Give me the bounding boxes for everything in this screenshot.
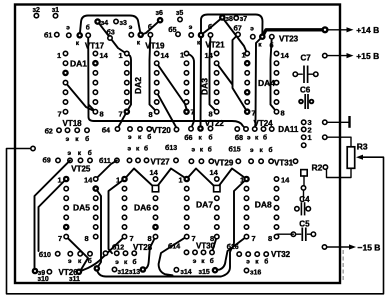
- DA7 pin 2 pad: [185, 186, 189, 190]
- node b10 pad: [56, 252, 60, 256]
- DA11 pin1 external pad: [323, 135, 327, 139]
- DA8 pin 2 pad: [244, 186, 248, 190]
- scan artifact line: [342, 250, 344, 282]
- svg-text:б: б: [85, 135, 89, 143]
- node z3 pad: [114, 19, 118, 23]
- node z15 big pad: [212, 267, 219, 274]
- svg-text:б: б: [263, 134, 267, 142]
- DA11 pin3 external pad: [323, 120, 327, 124]
- DA7 pin 8 pad: [215, 234, 219, 238]
- svg-text:14: 14: [210, 168, 219, 177]
- svg-text:з5: з5: [176, 10, 183, 17]
- transistor VT17: [67, 33, 71, 37]
- svg-text:б6: б6: [184, 134, 192, 142]
- svg-text:+15 В: +15 В: [356, 51, 379, 61]
- svg-text:R3: R3: [357, 142, 368, 152]
- DA5 pin 2 pad: [64, 186, 68, 190]
- svg-text:14: 14: [161, 51, 170, 60]
- DA5 pin 6 pad: [63, 224, 70, 231]
- wire VT21 arch over z8/z7 to VT23 k: [201, 15, 263, 37]
- wire DA5 col down to z12 pad: [96, 189, 101, 269]
- wire square pad to via: [303, 176, 305, 186]
- DA4 pin 7 pad: [244, 108, 251, 115]
- DA8 pin 7 pad: [244, 234, 248, 238]
- R2 pad: [323, 165, 327, 169]
- node b5 pad: [176, 32, 180, 36]
- node z4 pad: [94, 18, 101, 25]
- node z8 pad: [219, 14, 226, 21]
- DA7 pin 7 pad: [185, 234, 189, 238]
- svg-text:б15: б15: [229, 146, 241, 154]
- DA5 pin 5 pad: [64, 215, 68, 219]
- svg-text:б2: б2: [45, 128, 53, 136]
- svg-text:б10: б10: [39, 251, 51, 259]
- svg-text:з14: з14: [180, 269, 191, 276]
- DA7 pin 4 pad: [185, 206, 189, 210]
- svg-text:э: э: [189, 24, 193, 31]
- svg-text:C7: C7: [301, 54, 312, 63]
- svg-text:б: б: [133, 258, 137, 266]
- DA5 pin 4 pad: [64, 206, 68, 210]
- DA2 pin 2 pad: [125, 61, 129, 65]
- DA4 pin 10 pad: [274, 90, 278, 94]
- PCB board outline: [15, 5, 340, 284]
- wire DA2 pin13 diag to DA3 pin7: [157, 63, 187, 109]
- node z9 pad: [32, 268, 39, 275]
- svg-text:DA2: DA2: [133, 77, 143, 94]
- DA2 pin 13 pad: [155, 61, 159, 65]
- wire VT23 b down to DA4 pin8: [271, 37, 277, 112]
- DA4 pin 8 pad: [274, 110, 278, 114]
- DA3 pin 9 pad: [214, 100, 218, 104]
- svg-text:б: б: [269, 146, 273, 154]
- svg-text:э: э: [247, 135, 251, 142]
- wire DA6 pin1 down to VT28 e: [109, 179, 125, 253]
- svg-text:1: 1: [180, 51, 184, 60]
- svg-text:VT23: VT23: [279, 34, 299, 43]
- DA6 pin 4 pad: [122, 206, 126, 210]
- svg-text:14: 14: [205, 51, 214, 60]
- node b1 pad: [55, 32, 59, 36]
- svg-text:8: 8: [281, 109, 285, 118]
- transistor VT29 pads: [189, 159, 193, 163]
- wire R3 bottom to R2 pad: [327, 168, 352, 177]
- svg-text:б1: б1: [44, 31, 52, 39]
- pad right of VT20: [174, 127, 178, 131]
- svg-text:VT32: VT32: [271, 250, 291, 259]
- wire DA5 pin7 to VT26 pad: [66, 237, 88, 271]
- svg-text:э: э: [66, 24, 70, 31]
- DA4 pin 3 pad: [245, 71, 249, 75]
- transistor VT27 pads: [127, 158, 131, 162]
- DA8 pin 5 pad: [244, 215, 248, 219]
- DA8 pin 13 pad: [274, 186, 278, 190]
- DA4 pin 2 pad: [244, 60, 251, 67]
- svg-text:б4: б4: [102, 127, 110, 135]
- svg-text:б: б: [270, 42, 274, 50]
- wire C5 to DA8 pin8: [277, 234, 294, 236]
- DA6 pin 7 pad: [122, 234, 126, 238]
- DA1 pin 4 pad: [63, 80, 67, 84]
- DA6 square pad pin13: [152, 185, 158, 191]
- svg-text:б: б: [148, 23, 152, 31]
- DA11 pin1 pad: [302, 135, 306, 139]
- DA3 pin 4 pad: [184, 80, 188, 84]
- DA6 pin 1 pad: [121, 176, 128, 183]
- svg-text:VT21: VT21: [205, 40, 225, 49]
- DA6 pin9 pad: [152, 224, 159, 231]
- svg-text:э: э: [129, 24, 133, 31]
- svg-text:14: 14: [84, 176, 93, 185]
- node z2 pad: [34, 13, 38, 17]
- wire -15V out: [327, 246, 350, 248]
- svg-text:э: э: [128, 146, 132, 153]
- +15V pad: [323, 53, 327, 57]
- DA5 pin 9 pad: [94, 225, 98, 229]
- svg-text:8: 8: [149, 110, 153, 119]
- node b2 pad: [57, 128, 61, 132]
- DA11 pin4 pad: [302, 143, 306, 147]
- wire VT17 b down to bus: [88, 36, 94, 121]
- svg-text:1: 1: [119, 51, 123, 60]
- DA3 pin 1 pad: [184, 51, 188, 55]
- svg-text:б8: б8: [235, 134, 243, 142]
- DA6 pin 2 pad: [122, 186, 126, 190]
- svg-text:8: 8: [268, 234, 272, 243]
- DA1 pin 1 pad: [63, 51, 67, 55]
- wire VT19 b down to DA2 pin8: [150, 35, 157, 112]
- svg-text:DA1: DA1: [70, 59, 87, 69]
- node z13 pad: [140, 266, 147, 273]
- DA1 pin 2 pad: [63, 61, 67, 65]
- DA2 pin 4 pad: [125, 80, 129, 84]
- wire external loop from left pad around board to R3 wiper: [7, 149, 384, 294]
- DA5 pin 13 pad: [92, 185, 99, 192]
- DA3 pin 3 pad: [184, 71, 188, 75]
- svg-text:7: 7: [191, 108, 195, 117]
- svg-text:7: 7: [58, 110, 62, 119]
- DA1 pin 8 pad: [93, 110, 97, 114]
- DA1 pin 5 pad: [63, 90, 67, 94]
- svg-text:DA8: DA8: [255, 200, 272, 210]
- VT26 k pad: [76, 269, 83, 276]
- wire DA3 pin13 diag joining: [217, 63, 232, 84]
- pad right of VT29: [236, 159, 240, 163]
- svg-text:1: 1: [308, 133, 312, 142]
- node z12 big pad: [94, 265, 101, 272]
- svg-text:VT25: VT25: [71, 165, 91, 174]
- DA7 pin 14 pad: [215, 177, 219, 181]
- DA7 pin 11 pad: [215, 206, 219, 210]
- pad right of VT31: [293, 159, 297, 163]
- wire b7 pad down to DA4 pin7: [233, 35, 248, 112]
- wire +14V out: [329, 29, 348, 31]
- DA3 pin 5 pad: [184, 90, 188, 94]
- svg-text:14: 14: [150, 168, 159, 177]
- DA8 pin 12 pad: [274, 196, 278, 200]
- DA5 pin 10 pad: [94, 215, 98, 219]
- DA6 pin 11 pad: [153, 206, 157, 210]
- node b14 pad: [184, 250, 188, 254]
- svg-text:б: б: [86, 23, 90, 31]
- wire DA2 col diag down to VT20 side pad: [157, 92, 176, 127]
- DA4 pin 9 pad: [274, 100, 278, 104]
- DA1 pin 7 pad: [63, 110, 67, 114]
- svg-text:б16: б16: [227, 243, 239, 251]
- svg-text:э: э: [115, 259, 119, 266]
- wire DA8 pin7 to z15 pad: [215, 237, 247, 271]
- svg-text:б11: б11: [99, 157, 111, 165]
- svg-text:з16: з16: [250, 269, 261, 276]
- DA3 pin 7 pad: [183, 108, 190, 115]
- DA6 pin 10 pad: [153, 215, 157, 219]
- svg-text:DA4: DA4: [258, 78, 275, 88]
- svg-text:б7: б7: [234, 25, 242, 33]
- DA3 pin 11 pad: [214, 80, 218, 84]
- svg-text:б14: б14: [168, 243, 180, 251]
- DA1 pin 6 pad: [63, 100, 67, 104]
- svg-text:R2: R2: [312, 163, 323, 173]
- DA1 pin 12 pad: [93, 71, 97, 75]
- svg-text:1: 1: [242, 51, 246, 60]
- svg-text:14: 14: [281, 176, 290, 185]
- svg-text:8: 8: [209, 110, 213, 119]
- DA8 pin 1 pad: [243, 176, 250, 183]
- svg-text:б: б: [209, 133, 213, 141]
- DA2 pin 7 pad: [124, 108, 131, 115]
- DA7 pin 1 pad: [183, 176, 190, 183]
- svg-text:14: 14: [281, 51, 290, 60]
- DA1 pin 13 pad: [92, 60, 99, 67]
- wire VT23 k down to VT24 k: [255, 37, 263, 129]
- svg-text:з15: з15: [199, 269, 210, 276]
- DA3 pin 6 pad: [184, 100, 188, 104]
- DA8 pin 14 pad: [274, 177, 278, 181]
- svg-text:1: 1: [57, 51, 61, 60]
- DA5 pin 7 pad: [64, 234, 68, 238]
- svg-text:э: э: [193, 258, 197, 265]
- DA5 pin 3 pad: [64, 196, 68, 200]
- svg-text:DA7: DA7: [196, 200, 213, 210]
- DA6 pin 14 pad: [153, 177, 157, 181]
- DA6 pin 12 pad: [153, 196, 157, 200]
- wire DA5 pin1 to b10 pad: [39, 179, 67, 251]
- wire VT17 k arch over z4 to VT19 k: [80, 16, 141, 36]
- node z7 pad: [234, 16, 238, 20]
- DA5 pin 11 pad: [94, 206, 98, 210]
- svg-text:б: б: [210, 257, 214, 265]
- pad right of VT27: [174, 158, 178, 162]
- transistor VT25 pads: [68, 158, 72, 162]
- wire DA2 pin7 to b4 pad: [118, 112, 127, 129]
- wire zigzag DA7 to DA8: [187, 169, 247, 189]
- DA8 pin 6 pad: [244, 225, 248, 229]
- DA2 pin 12 pad: [155, 71, 159, 75]
- DA6 pin 3 pad: [122, 196, 126, 200]
- DA1 pin 3 pad: [62, 70, 69, 77]
- DA7 pin 6 pad: [185, 225, 189, 229]
- DA4 pin 14 pad: [274, 51, 278, 55]
- node left entry pad: [31, 146, 35, 150]
- svg-text:8: 8: [85, 234, 89, 243]
- svg-text:э: э: [246, 259, 250, 266]
- svg-text:з13: з13: [129, 269, 140, 276]
- node z6 pad: [157, 17, 164, 24]
- svg-text:з3: з3: [120, 20, 127, 27]
- DA1 pin 9 pad: [93, 100, 97, 104]
- node b7 pad: [236, 32, 240, 36]
- node z16 pad: [244, 268, 248, 272]
- svg-text:VT17: VT17: [85, 42, 105, 51]
- node z14 pad: [174, 268, 178, 272]
- svg-text:б: б: [88, 257, 92, 265]
- wire DA2 pin1 hairpin to pin7: [127, 54, 131, 112]
- DA11 pin2 pad: [302, 127, 306, 131]
- svg-text:DA5: DA5: [73, 203, 90, 213]
- DA6 pin 5 pad: [122, 215, 126, 219]
- DA7 pin 3 pad: [185, 196, 189, 200]
- DA4 pin 13 pad: [274, 61, 278, 65]
- DA8 pin 4 pad: [244, 206, 248, 210]
- svg-text:з10: з10: [38, 276, 49, 283]
- DA3 pin 14 pad: [214, 51, 218, 55]
- svg-text:1: 1: [58, 176, 62, 185]
- via above C4: [301, 186, 305, 190]
- svg-text:VT20: VT20: [152, 126, 172, 135]
- DA2 pin 8 pad: [155, 110, 159, 114]
- node b16 pad: [237, 252, 241, 256]
- svg-text:б: б: [144, 145, 148, 153]
- DA5 pin 12 pad: [94, 196, 98, 200]
- DA7 pin 10 pad: [215, 215, 219, 219]
- wire z4 diag to DA2 pin1: [98, 22, 127, 54]
- svg-text:7: 7: [58, 234, 62, 243]
- DA11 pin3 pad: [302, 120, 306, 124]
- arrowhead into R3 wiper: [356, 155, 363, 160]
- wire thick +14V feed from VT23 k: [262, 30, 325, 37]
- DA4 pin 5 pad: [244, 89, 251, 96]
- svg-text:э: э: [66, 136, 70, 143]
- DA7 square pad pin13: [214, 185, 220, 191]
- node z5 pad: [178, 17, 182, 21]
- svg-text:VT29: VT29: [214, 159, 234, 168]
- pad right of VT24: [270, 127, 274, 131]
- svg-text:VT22: VT22: [205, 119, 225, 128]
- DA2 pin 10 pad: [155, 90, 159, 94]
- svg-text:б: б: [208, 146, 212, 154]
- DA4 pin 11 pad: [274, 80, 278, 84]
- svg-text:7: 7: [252, 109, 256, 118]
- svg-text:1: 1: [116, 176, 120, 185]
- wire DA1 pin3 diag to pin8: [66, 83, 96, 112]
- wire DA7 pin7 down around to z14: [159, 237, 187, 276]
- svg-text:VT19: VT19: [145, 42, 165, 51]
- wire VT21 k down to VT22 k: [200, 35, 203, 129]
- svg-text:б13: б13: [165, 144, 177, 152]
- wire DA11 pin1 to R3 top: [327, 137, 351, 146]
- svg-text:з8: з8: [226, 16, 233, 23]
- svg-text:8: 8: [100, 110, 104, 119]
- DA6 pin 8 pad: [153, 234, 157, 238]
- wire horizontal bus y=121: [94, 121, 246, 129]
- DA2 pin 14 pad: [155, 51, 159, 55]
- wire zigzag DA6 to DA7: [125, 169, 187, 189]
- DA7 pin 12 pad: [215, 196, 219, 200]
- node z12 pad: [112, 267, 116, 271]
- wire z8 diag to DA4 pin1: [222, 18, 247, 54]
- svg-text:э: э: [250, 147, 254, 154]
- DA6 pin 6 pad: [122, 225, 126, 229]
- transistor VT23: [251, 35, 255, 39]
- svg-text:б: б: [264, 258, 268, 266]
- svg-text:7: 7: [252, 234, 256, 243]
- DA8 pin 11 pad: [274, 206, 278, 210]
- svg-text:+14 В: +14 В: [356, 25, 379, 35]
- wire DA6 pin7 down to VT26 k: [79, 237, 125, 272]
- wire +15V out: [327, 55, 347, 57]
- svg-text:з6: з6: [156, 10, 163, 17]
- DA3 pin 12 pad: [214, 71, 218, 75]
- DA3 pin 10 pad: [214, 90, 218, 94]
- svg-text:э: э: [128, 134, 132, 141]
- square pad above C4: [301, 170, 307, 176]
- pad left of VT31: [269, 159, 273, 163]
- svg-text:C6: C6: [300, 86, 311, 95]
- transistor VT21: [189, 33, 193, 37]
- terminal bar: [348, 116, 350, 128]
- svg-text:7: 7: [130, 234, 134, 243]
- DA5 pin 1 pad: [63, 176, 70, 183]
- svg-text:э: э: [68, 258, 72, 265]
- svg-text:з4: з4: [101, 20, 108, 27]
- transistor VT19: [129, 33, 133, 37]
- DA1 pin 11 pad: [93, 80, 97, 84]
- svg-text:14: 14: [100, 51, 109, 60]
- DA7 pin 9 pad: [215, 225, 219, 229]
- svg-text:VT18: VT18: [63, 119, 83, 128]
- svg-text:з7: з7: [240, 16, 247, 23]
- wire VT21 b down to DA3 pin8: [210, 35, 217, 112]
- svg-text:з11: з11: [69, 276, 80, 283]
- svg-text:7: 7: [119, 110, 123, 119]
- DA1 pin 10 pad: [93, 90, 97, 94]
- DA2 pin 3 pad: [125, 71, 129, 75]
- wire DA7 pin8 to VT30 b: [212, 237, 217, 253]
- DA5 pin 14 pad: [94, 177, 98, 181]
- node b3 pad: [108, 36, 112, 40]
- DA2 pin 11 pad: [155, 80, 159, 84]
- node z1 pad: [53, 14, 57, 18]
- svg-text:з12: з12: [118, 269, 129, 276]
- svg-text:1: 1: [179, 176, 183, 185]
- svg-text:э: э: [250, 26, 254, 33]
- +14V pad: [321, 26, 328, 33]
- DA8 pin 9 pad: [274, 225, 278, 229]
- svg-text:DA3: DA3: [200, 78, 210, 95]
- wire DA8 pin1 down around bottom to z12: [98, 179, 247, 277]
- svg-text:б: б: [147, 133, 151, 141]
- DA3 pin 8 pad: [214, 110, 218, 114]
- wire z8 to VT21 k: [201, 18, 222, 36]
- DA2 pin 9 pad: [155, 100, 159, 104]
- pad between z9 and VT26: [47, 270, 51, 274]
- DA8 pin 10 pad: [274, 215, 278, 219]
- svg-text:DA6: DA6: [134, 203, 151, 213]
- wire via to C4: [303, 190, 305, 200]
- DA2 pin 1 pad: [125, 51, 129, 55]
- svg-text:б: б: [88, 149, 92, 157]
- DA3 pin 2 pad: [184, 61, 188, 65]
